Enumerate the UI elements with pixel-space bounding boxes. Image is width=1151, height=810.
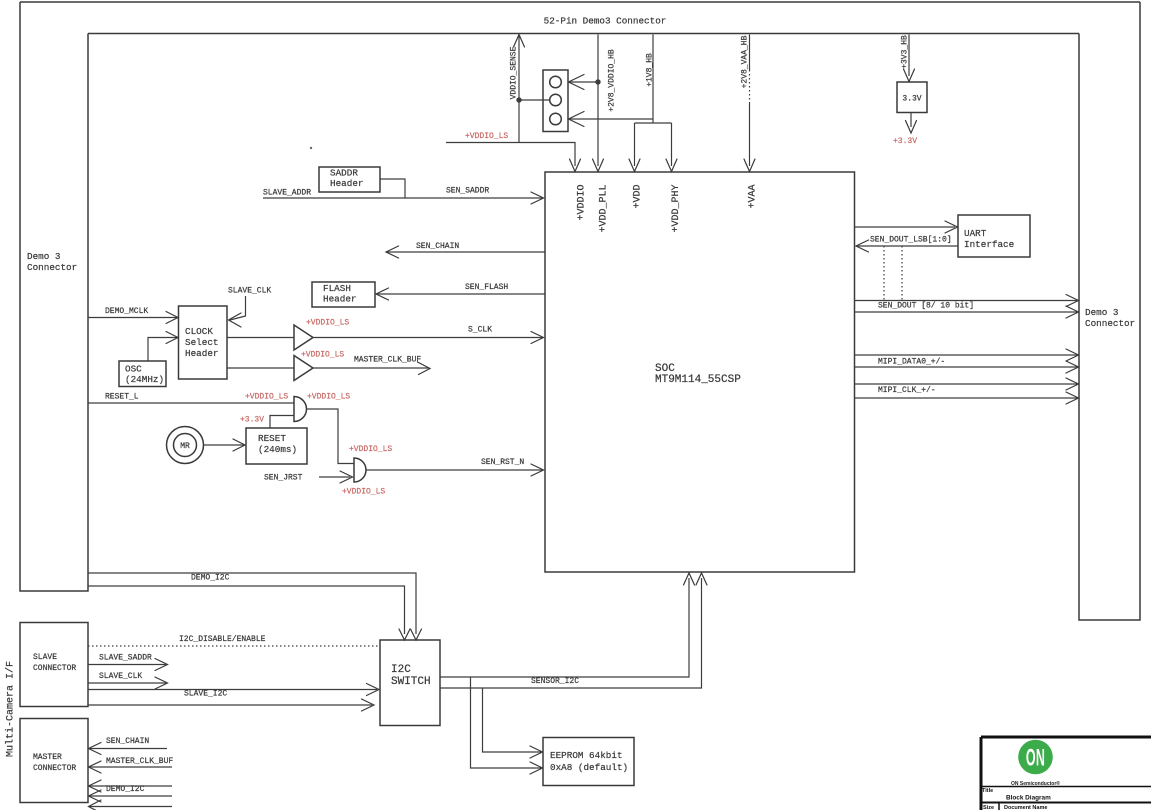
wire: dotted taps from SEN_DOUT_LSB to SEN_DOUT bus: [884, 246, 902, 300]
net SEN_CHAIN wire into master connector: [89, 737, 168, 755]
net SLAVE_SADDR stub wire with arrow: [88, 654, 168, 671]
svg-text:Demo 3: Demo 3: [1085, 307, 1118, 318]
svg-text:SEN_CHAIN: SEN_CHAIN: [106, 737, 149, 746]
svg-text:(24MHz): (24MHz): [125, 374, 164, 385]
svg-text:SENSOR_I2C: SENSOR_I2C: [531, 677, 579, 686]
net S_CLK wire into SOC: [313, 326, 544, 344]
svg-text:+VDDIO_LS: +VDDIO_LS: [342, 488, 385, 497]
logo: ON Semiconductor: [1011, 740, 1060, 787]
svg-text:VDDIO_SENSE: VDDIO_SENSE: [510, 46, 519, 99]
connector J3: SADDR Header: [319, 167, 380, 192]
52-pin Demo3 connector frame (top strap): [20, 2, 1140, 34]
svg-text:SEN_CHAIN: SEN_CHAIN: [416, 242, 459, 251]
svg-text:+VDDIO_LS: +VDDIO_LS: [349, 445, 392, 454]
svg-text:SEN_DOUT [8/ 10 bit]: SEN_DOUT [8/ 10 bit]: [878, 302, 974, 311]
net SEN_DOUT_LSB[1:0] wire from UART to SOC: [856, 236, 958, 253]
svg-text:Title: Title: [982, 788, 993, 794]
svg-text:SEN_FLASH: SEN_FLASH: [465, 283, 508, 292]
wire: SENSOR_I2C branch down to EEPROM (SCL): [483, 688, 543, 758]
net DEMO_I2C bus from left connector to I2C switch: [88, 573, 422, 640]
svg-text:OSC: OSC: [125, 364, 142, 375]
connector J6: SLAVE CONNECTOR: [20, 623, 88, 707]
svg-text:Size: Size: [983, 805, 994, 810]
svg-text:+VDD_PLL: +VDD_PLL: [599, 185, 610, 233]
svg-text:Connector: Connector: [1085, 318, 1135, 329]
connector J5: CLOCK Select Header: [179, 306, 228, 379]
svg-text:SEN_SADDR: SEN_SADDR: [446, 187, 489, 196]
svg-text:DEMO_MCLK: DEMO_MCLK: [105, 307, 148, 316]
wire: SOC to UART Interface with arrow: [855, 221, 958, 233]
svg-text:SLAVE_CLK: SLAVE_CLK: [228, 287, 271, 296]
node: junction +2V8_VDDIO_HB to header pin 1: [595, 79, 600, 84]
net +3V3_HB wire from connector to 3.3V regulator: [901, 35, 915, 82]
svg-text:+VAA: +VAA: [748, 185, 759, 209]
net VDDIO_SENSE wire and up-arrow into connector: [510, 35, 525, 143]
svg-text:Header: Header: [185, 348, 218, 359]
svg-text:DEMO_I2C: DEMO_I2C: [191, 574, 230, 583]
net SEN_FLASH wire out of SOC to FLASH header: [376, 283, 545, 300]
svg-text:+2V8_VAA_HB: +2V8_VAA_HB: [741, 35, 750, 88]
regulator U2: 3.3V block: [897, 82, 927, 113]
net SENSOR_I2C bus from I2C switch to SOC: [440, 573, 707, 688]
svg-text:SADDR: SADDR: [330, 168, 358, 179]
wire: +1V8_HB to header pin 3 with arrow: [569, 112, 654, 127]
svg-text:I2C: I2C: [391, 664, 411, 676]
svg-text:Select: Select: [185, 337, 218, 348]
svg-text:Multi-Camera I/F: Multi-Camera I/F: [5, 661, 17, 757]
svg-text:I2C_DISABLE/ENABLE: I2C_DISABLE/ENABLE: [179, 635, 266, 644]
net +2V8_VAA_HB wire from connector to SOC +VAA (dotted middle): [741, 35, 756, 172]
interface U10: UART Interface block: [958, 215, 1030, 257]
connector J7: MASTER CONNECTOR: [20, 719, 88, 803]
wire: U5 output to U6 input: [307, 409, 355, 464]
connector J1 left: Demo 3 Connector (left tall box): [20, 2, 88, 591]
svg-text:RESET: RESET: [258, 433, 286, 444]
svg-text:DEMO_I2C: DEMO_I2C: [106, 785, 145, 794]
svg-text:SLAVE_ADDR: SLAVE_ADDR: [263, 189, 311, 198]
op-amp U1 SOC MT9M114_55CSP main block: [545, 172, 855, 572]
svg-text:SLAVE_CLK: SLAVE_CLK: [99, 672, 142, 681]
net +2V8_VDDIO_HB wire from connector to SOC +VDD_PLL: [593, 35, 617, 172]
net RESET_L wire from left connector: [88, 393, 294, 404]
net SLAVE_ADDR / SEN_SADDR wire into SOC: [263, 179, 544, 204]
svg-text:SLAVE: SLAVE: [33, 653, 57, 662]
net I2C_DISABLE/ENABLE dotted wire: [88, 635, 380, 646]
svg-text:Interface: Interface: [964, 239, 1014, 250]
svg-text:UART: UART: [964, 228, 987, 239]
svg-text:FLASH: FLASH: [323, 283, 351, 294]
wire: RESET block output up into U5: [270, 416, 294, 429]
svg-text:0xA8 (default): 0xA8 (default): [550, 762, 628, 773]
svg-text:EEPROM 64kbit: EEPROM 64kbit: [550, 750, 623, 761]
svg-text:+VDD_PHY: +VDD_PHY: [671, 185, 682, 233]
title block frame: [981, 737, 1151, 810]
net SEN_DOUT [8/ 10 bit] bus to right connector: [855, 295, 1079, 319]
svg-text:Connector: Connector: [27, 262, 77, 273]
svg-text:+VDDIO_LS: +VDDIO_LS: [301, 351, 344, 360]
net SEN_RST_N wire from U6 into SOC: [366, 458, 544, 476]
svg-text:+VDDIO_LS: +VDDIO_LS: [307, 393, 350, 402]
wire: +1V8_HB split to +VDD and +VDD_PHY: [629, 123, 677, 172]
svg-text:MIPI_DATA0_+/-: MIPI_DATA0_+/-: [878, 358, 945, 367]
svg-text:+2V8_VDDIO_HB: +2V8_VDDIO_HB: [608, 49, 617, 112]
net DEMO_I2C wire into master connector: [89, 785, 173, 802]
net +1V8_HB wire from connector: [646, 35, 655, 124]
svg-text:MT9M114_55CSP: MT9M114_55CSP: [655, 374, 741, 386]
svg-text:SLAVE_SADDR: SLAVE_SADDR: [99, 654, 152, 663]
stray dot mark: [310, 147, 312, 149]
svg-text:MR: MR: [180, 442, 190, 451]
wire: +2V8_VDDIO_HB to header pin 1 with arrow: [569, 75, 599, 90]
svg-text:RESET_L: RESET_L: [105, 393, 139, 402]
wire: unlabeled arrow into master connector: [89, 780, 173, 792]
svg-text:CLOCK: CLOCK: [185, 326, 213, 337]
wire: outer top edge of 52-pin connector: [20, 1, 1140, 3]
svg-text:Demo 3: Demo 3: [27, 251, 60, 262]
svg-text:ON: ON: [1026, 745, 1045, 771]
title block text: Title / Block Diagram: [982, 788, 1051, 802]
connector J2: 3-pin sense header: [543, 70, 568, 132]
svg-text:+3.3V: +3.3V: [240, 416, 264, 425]
svg-text:Header: Header: [330, 178, 363, 189]
wire: bottom edge arrow into master connector: [89, 800, 173, 810]
wire: inner top edge of 52-pin connector: [88, 33, 1079, 35]
net MASTER_CLK_BUF dangling wire with arrow: [313, 356, 430, 375]
svg-text:+3.3V: +3.3V: [893, 137, 917, 146]
wire: VDDIO_SENSE junction to header pin 2: [519, 99, 550, 101]
svg-text:+1V8_HB: +1V8_HB: [646, 53, 655, 87]
svg-text:+VDD: +VDD: [633, 185, 644, 209]
svg-text:52-Pin Demo3 Connector: 52-Pin Demo3 Connector: [544, 16, 667, 27]
oscillator Y1: OSC (24MHz): [119, 361, 166, 387]
net SLAVE_I2C bus into I2C switch: [88, 684, 379, 712]
svg-text:SLAVE_I2C: SLAVE_I2C: [184, 690, 227, 699]
node: junction on VDDIO_SENSE to header pin 2: [516, 97, 521, 102]
svg-text:(240ms): (240ms): [258, 444, 297, 455]
svg-text:MIPI_CLK_+/-: MIPI_CLK_+/-: [878, 386, 936, 395]
svg-text:+3V3_HB: +3V3_HB: [901, 35, 910, 69]
svg-text:MASTER_CLK_BUF: MASTER_CLK_BUF: [354, 356, 421, 365]
svg-text:SEN_JRST: SEN_JRST: [264, 474, 303, 483]
wire: 3.3V regulator output arrow: [906, 113, 917, 134]
svg-text:MASTER_CLK_BUF: MASTER_CLK_BUF: [106, 757, 173, 766]
connector J1 right: Demo 3 Connector (right tall box): [1079, 2, 1140, 620]
memory U9: EEPROM 64kbit block: [543, 738, 634, 786]
net DEMO_MCLK wire from left connector to CLOCK header: [88, 307, 178, 324]
svg-text:+VDDIO_LS: +VDDIO_LS: [465, 132, 508, 141]
net MIPI_DATA0_+/- differential pair to right connector: [855, 349, 1079, 373]
svg-text:SEN_DOUT_LSB[1:0]: SEN_DOUT_LSB[1:0]: [870, 236, 952, 245]
title block text: Size / Document Name: [983, 805, 1047, 810]
svg-text:+VDDIO: +VDDIO: [577, 185, 588, 221]
gate U5: reset combiner (D-gate): [294, 397, 306, 422]
svg-text:Header: Header: [323, 294, 356, 305]
svg-text:Document Name: Document Name: [1004, 805, 1047, 810]
svg-text:+VDDIO_LS: +VDDIO_LS: [306, 319, 349, 328]
wire: MR to RESET block with arrow: [204, 439, 246, 451]
svg-text:+VDDIO_LS: +VDDIO_LS: [245, 393, 288, 402]
svg-text:SWITCH: SWITCH: [391, 676, 431, 688]
net MIPI_CLK_+/- differential pair to right connector: [855, 378, 1079, 404]
buffer U4: MASTER_CLK_BUF driver triangle: [227, 356, 313, 381]
net SLAVE_CLK stub wire with arrow: [88, 672, 168, 689]
timer U7: RESET (240ms) block: [246, 428, 307, 464]
svg-text:3.3V: 3.3V: [902, 95, 921, 104]
connector J4: FLASH Header: [312, 282, 375, 307]
svg-text:ON Semiconductor®: ON Semiconductor®: [1011, 780, 1060, 787]
net SEN_CHAIN wire out of SOC with left arrow: [386, 242, 545, 258]
svg-text:S_CLK: S_CLK: [468, 326, 492, 335]
net SEN_JRST wire into U6: [264, 471, 353, 483]
svg-text:SEN_RST_N: SEN_RST_N: [481, 458, 524, 467]
gate U6: SEN_JRST combiner (D-gate): [354, 458, 366, 482]
switch S1: MR pushbutton (double circle): [167, 427, 204, 464]
svg-text:CONNECTOR: CONNECTOR: [33, 764, 76, 773]
buffer U3: S_CLK driver triangle: [227, 325, 313, 350]
wire: OSC output to CLOCK header: [148, 332, 178, 362]
svg-text:Block Diagram: Block Diagram: [1006, 795, 1051, 802]
mux U8: I2C SWITCH block: [380, 640, 440, 726]
svg-text:CONNECTOR: CONNECTOR: [33, 664, 76, 673]
svg-text:MASTER: MASTER: [33, 753, 62, 762]
net SLAVE_CLK wire into CLOCK select header: [228, 287, 271, 328]
wire: SENSOR_I2C branch down to EEPROM (SDA): [471, 677, 543, 774]
net +VDDIO_LS rail to SOC +VDDIO: [446, 132, 581, 172]
net MASTER_CLK_BUF wire into master connector: [89, 757, 174, 773]
